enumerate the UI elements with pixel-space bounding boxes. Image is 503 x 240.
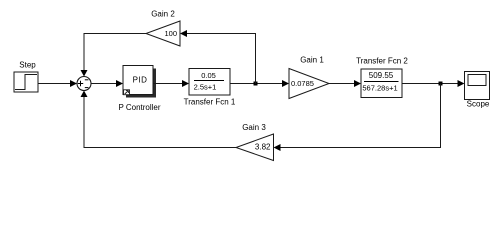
svg-text:3.82: 3.82: [255, 143, 271, 152]
node junction J1: [254, 82, 258, 86]
svg-text:509.55: 509.55: [369, 71, 394, 80]
gain G3 Gain 3: [236, 134, 274, 161]
svg-text:Transfer Fcn 2: Transfer Fcn 2: [356, 57, 408, 66]
wire PID to Transfer Fcn 1: [153, 80, 189, 87]
svg-text:Gain 3: Gain 3: [242, 123, 266, 132]
svg-text:PID: PID: [133, 76, 148, 85]
svg-text:0.05: 0.05: [201, 71, 216, 80]
svg-text:100: 100: [164, 29, 177, 38]
svg-text:Step: Step: [19, 61, 36, 70]
block Scope: [465, 72, 490, 100]
wire Transfer Fcn 2 to Scope: [402, 80, 465, 87]
svg-text:0.0785: 0.0785: [291, 79, 314, 88]
wire Gain 2 to Sum top: [81, 34, 147, 77]
svg-text:P Controller: P Controller: [118, 103, 160, 112]
gain G2 Gain 2: [146, 21, 180, 46]
svg-text:2.5s+1: 2.5s+1: [194, 83, 217, 92]
sum junction S1: [77, 77, 91, 91]
svg-text:567.28s+1: 567.28s+1: [362, 84, 397, 93]
wire Sum to PID: [91, 80, 123, 87]
block Transfer Fcn 1: [189, 69, 230, 96]
block Transfer Fcn 2: [361, 69, 402, 98]
wire Transfer Fcn 1 to Gain 1: [230, 80, 289, 87]
svg-text:Gain 2: Gain 2: [151, 10, 175, 19]
wire Step to Sum: [38, 80, 77, 87]
gain G1 Gain 1: [289, 69, 329, 99]
svg-text:Gain 1: Gain 1: [300, 56, 324, 65]
block PID P Controller: [123, 66, 156, 98]
wire junction J1 to Gain 2: [180, 30, 256, 84]
node junction J2: [439, 82, 443, 86]
block Step: [14, 72, 38, 92]
wire junction J2 to Gain 3: [274, 84, 441, 152]
svg-text:Scope: Scope: [467, 100, 490, 109]
wire Gain 3 to Sum bottom: [81, 91, 237, 148]
svg-text:Transfer Fcn 1: Transfer Fcn 1: [184, 98, 236, 107]
wire Gain 1 to Transfer Fcn 2: [329, 80, 361, 87]
